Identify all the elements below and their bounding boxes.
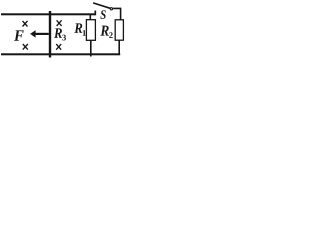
label R2 text	[100, 26, 108, 36]
switch S pivot circle	[110, 8, 112, 10]
force arrow F	[30, 30, 49, 37]
wire bottom rail	[1, 53, 120, 55]
field symbol x upper-middle	[57, 20, 62, 26]
rod R3 (sliding conductor)	[49, 11, 51, 58]
resistor R1	[86, 14, 95, 57]
label R3 text	[54, 28, 62, 37]
field symbol x lower-left	[23, 44, 28, 50]
label R2 sub2	[109, 32, 113, 38]
wire top rail	[1, 13, 96, 15]
switch S fixed contact	[94, 11, 96, 16]
field symbol x lower-middle	[56, 44, 61, 50]
label R3 sub3	[62, 35, 66, 41]
wire switch pivot to top-right corner	[113, 8, 121, 20]
resistor R2	[115, 20, 123, 55]
field symbol x upper-left	[23, 21, 28, 27]
label S text	[100, 10, 105, 19]
label R1 sub1	[83, 30, 86, 36]
label F text	[14, 30, 24, 40]
label R1 text	[74, 23, 82, 32]
switch S blade	[93, 3, 110, 8]
